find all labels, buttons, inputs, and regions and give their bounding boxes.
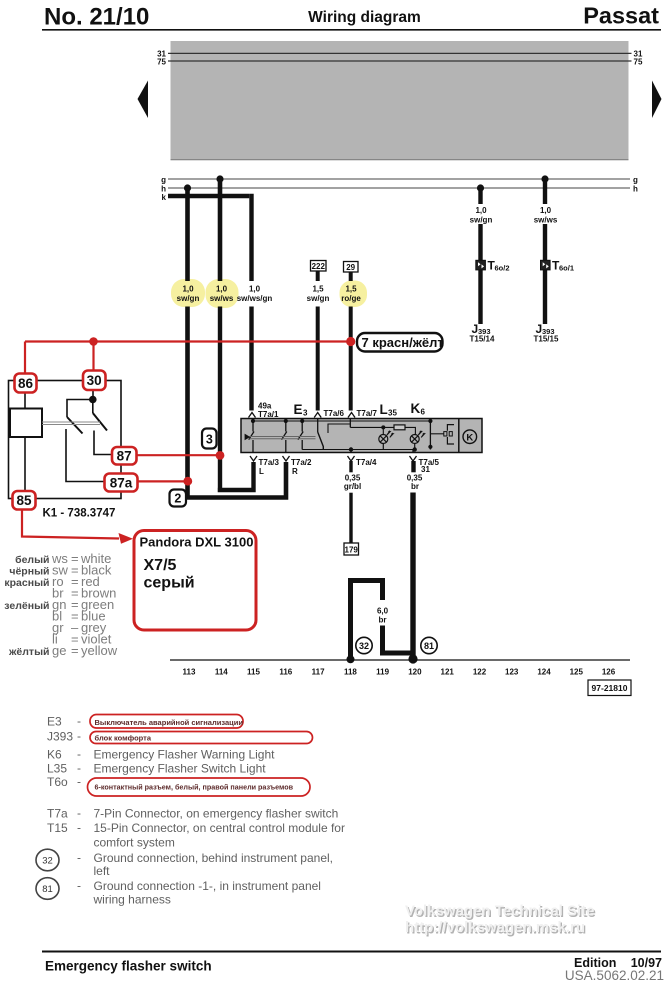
svg-text:-: - — [77, 761, 81, 775]
svg-text:126: 126 — [602, 668, 616, 677]
svg-text:1,0: 1,0 — [249, 285, 261, 294]
svg-text:жёлтый: жёлтый — [8, 646, 50, 658]
svg-text:T15/14: T15/14 — [470, 335, 495, 344]
svg-text:h: h — [633, 185, 638, 194]
svg-text:1,5: 1,5 — [345, 285, 357, 294]
svg-text:113: 113 — [183, 668, 196, 677]
svg-text:116: 116 — [279, 668, 292, 677]
svg-text:29: 29 — [346, 263, 355, 272]
svg-text:R: R — [292, 467, 298, 476]
svg-text:yellow: yellow — [81, 643, 118, 658]
svg-text:Emergency Flasher Warning Ligh: Emergency Flasher Warning Light — [94, 748, 276, 762]
svg-text:=: = — [71, 643, 79, 658]
svg-text:81: 81 — [42, 884, 53, 895]
svg-text:T7a/6: T7a/6 — [324, 409, 345, 418]
svg-text:6o/1: 6o/1 — [559, 264, 574, 273]
svg-text:Ground connection, behind inst: Ground connection, behind instrument pan… — [94, 851, 334, 865]
svg-text:wiring harness: wiring harness — [93, 893, 171, 907]
svg-text:7-Pin Connector, on emergency: 7-Pin Connector, on emergency flasher sw… — [94, 807, 339, 821]
svg-text:87a: 87a — [110, 476, 133, 491]
svg-text:Emergency Flasher Switch Light: Emergency Flasher Switch Light — [94, 762, 267, 776]
svg-text:Emergency flasher switch: Emergency flasher switch — [45, 959, 212, 974]
svg-text:K: K — [411, 401, 421, 416]
svg-text:-: - — [77, 775, 81, 789]
svg-text:123: 123 — [505, 668, 519, 677]
svg-text:Pandora DXL 3100: Pandora DXL 3100 — [140, 535, 254, 550]
svg-text:1,0: 1,0 — [182, 285, 194, 294]
svg-text:sw/gn: sw/gn — [177, 294, 200, 303]
svg-text:6o/2: 6o/2 — [495, 264, 510, 273]
svg-text:http://volkswagen.msk.ru: http://volkswagen.msk.ru — [405, 919, 585, 936]
svg-text:87: 87 — [117, 449, 132, 464]
svg-text:Ground connection -1-, in inst: Ground connection -1-, in instrument pan… — [94, 879, 321, 893]
svg-text:T15: T15 — [47, 821, 68, 835]
svg-text:-: - — [77, 806, 81, 820]
svg-text:117: 117 — [312, 668, 325, 677]
svg-text:L35: L35 — [47, 762, 67, 776]
svg-text:E3: E3 — [47, 715, 62, 729]
svg-text:k: k — [162, 193, 167, 202]
svg-text:sw/ws/gn: sw/ws/gn — [237, 294, 273, 303]
svg-text:1,0: 1,0 — [216, 285, 228, 294]
svg-text:32: 32 — [42, 856, 53, 867]
svg-text:ro/ge: ro/ge — [341, 294, 361, 303]
svg-text:7 красн/жёлт: 7 красн/жёлт — [362, 335, 444, 350]
svg-text:Wiring diagram: Wiring diagram — [308, 9, 421, 26]
svg-text:br: br — [411, 482, 419, 491]
svg-text:J393: J393 — [47, 730, 73, 744]
svg-text:1,5: 1,5 — [312, 285, 324, 294]
svg-text:T7a/3: T7a/3 — [259, 458, 280, 467]
svg-text:97-21810: 97-21810 — [592, 683, 628, 693]
svg-text:1,0: 1,0 — [540, 206, 552, 215]
svg-text:-: - — [77, 879, 81, 893]
svg-text:85: 85 — [16, 493, 32, 508]
svg-text:86: 86 — [18, 376, 34, 391]
svg-text:USA.5062.02.21: USA.5062.02.21 — [565, 968, 664, 983]
svg-text:6: 6 — [421, 408, 426, 417]
svg-text:T7a/1: T7a/1 — [258, 410, 279, 419]
svg-text:Passat: Passat — [583, 3, 659, 29]
svg-text:sw/ws: sw/ws — [534, 216, 558, 225]
svg-text:L: L — [259, 467, 264, 476]
svg-text:-: - — [77, 747, 81, 761]
svg-text:6,0: 6,0 — [377, 607, 389, 616]
svg-text:75: 75 — [634, 58, 643, 67]
svg-text:g: g — [161, 176, 166, 185]
svg-text:121: 121 — [441, 668, 455, 677]
svg-text:T7a: T7a — [47, 807, 68, 821]
svg-text:-: - — [77, 851, 81, 865]
svg-text:br: br — [379, 616, 387, 625]
svg-text:75: 75 — [157, 58, 166, 67]
svg-text:122: 122 — [473, 668, 487, 677]
svg-text:6-контактный разъем, белый, пр: 6-контактный разъем, белый, правой панел… — [95, 783, 294, 792]
svg-text:81: 81 — [424, 641, 434, 651]
svg-text:120: 120 — [408, 668, 422, 677]
svg-text:K1 - 738.3747: K1 - 738.3747 — [43, 508, 116, 520]
svg-text:g: g — [633, 176, 638, 185]
svg-text:32: 32 — [359, 641, 369, 651]
svg-text:31: 31 — [421, 465, 430, 474]
svg-text:Выключатель аварийной сигнализ: Выключатель аварийной сигнализации — [95, 718, 244, 727]
svg-text:чёрный: чёрный — [9, 566, 49, 578]
svg-text:K6: K6 — [47, 748, 62, 762]
svg-text:125: 125 — [570, 668, 584, 677]
svg-text:sw/gn: sw/gn — [470, 216, 493, 225]
svg-text:T7a/7: T7a/7 — [357, 409, 378, 418]
svg-text:блок комфорта: блок комфорта — [95, 733, 152, 742]
svg-text:sw/ws: sw/ws — [210, 294, 234, 303]
svg-text:T15/15: T15/15 — [534, 335, 559, 344]
svg-text:T7a/4: T7a/4 — [356, 458, 377, 467]
svg-text:comfort system: comfort system — [94, 836, 175, 850]
svg-text:T7a/2: T7a/2 — [291, 458, 312, 467]
svg-text:118: 118 — [344, 668, 357, 677]
svg-text:222: 222 — [312, 262, 326, 271]
svg-text:179: 179 — [345, 545, 359, 554]
svg-text:114: 114 — [215, 668, 228, 677]
svg-text:gr/bl: gr/bl — [344, 482, 361, 491]
svg-text:No. 21/10: No. 21/10 — [44, 3, 149, 30]
svg-text:X7/5: X7/5 — [144, 557, 177, 574]
svg-text:115: 115 — [247, 668, 260, 677]
svg-text:-: - — [77, 729, 81, 743]
svg-text:left: left — [94, 864, 111, 878]
svg-text:серый: серый — [144, 575, 195, 592]
svg-text:sw/gn: sw/gn — [307, 294, 330, 303]
svg-text:3: 3 — [206, 433, 213, 447]
svg-text:30: 30 — [87, 373, 102, 388]
svg-text:E: E — [294, 402, 303, 417]
svg-text:124: 124 — [537, 668, 551, 677]
svg-text:красный: красный — [4, 577, 49, 589]
svg-text:1,0: 1,0 — [475, 206, 487, 215]
svg-text:15-Pin Connector, on central c: 15-Pin Connector, on central control mod… — [94, 821, 345, 835]
svg-text:2: 2 — [174, 492, 181, 506]
svg-text:-: - — [77, 821, 81, 835]
svg-text:3: 3 — [303, 409, 308, 418]
svg-text:119: 119 — [376, 668, 389, 677]
svg-text:ge: ge — [52, 643, 66, 658]
svg-text:зелёный: зелёный — [4, 600, 49, 612]
svg-text:Volkswagen Technical Site: Volkswagen Technical Site — [405, 903, 595, 920]
svg-text:35: 35 — [388, 409, 397, 418]
svg-text:-: - — [77, 714, 81, 728]
svg-text:белый: белый — [15, 554, 49, 566]
svg-text:T6o: T6o — [47, 775, 68, 789]
svg-text:L: L — [380, 402, 388, 417]
svg-text:K: K — [466, 433, 473, 444]
